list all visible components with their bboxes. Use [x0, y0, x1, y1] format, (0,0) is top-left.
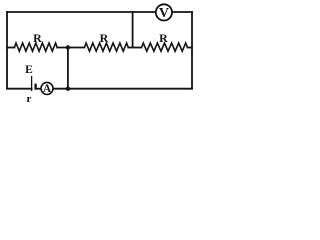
resistor R3: [142, 43, 188, 51]
wire right edge: [191, 12, 193, 89]
wire middle right stub: [188, 47, 193, 49]
node junction dot bottom: [66, 87, 70, 91]
svg-text:E: E: [25, 64, 33, 76]
node junction dot middle: [66, 45, 70, 49]
voltmeter V: [156, 4, 172, 20]
wire left edge: [6, 12, 8, 89]
wire between R2 and R3: [128, 47, 141, 49]
wire top right segment: [173, 11, 192, 13]
svg-text:R: R: [33, 31, 42, 45]
wire vertical middle-to-bottom: [67, 48, 69, 89]
battery short plate: [34, 84, 36, 90]
svg-text:V: V: [159, 6, 169, 21]
wire vertical top-to-middle: [132, 12, 134, 48]
svg-text:R: R: [159, 31, 168, 45]
wire battery to ammeter: [36, 88, 41, 90]
resistor R2: [84, 43, 128, 51]
wire between R1 and R2: [57, 47, 84, 49]
svg-text:A: A: [43, 83, 52, 95]
svg-text:R: R: [100, 31, 109, 45]
wire middle left stub: [7, 47, 14, 49]
battery long plate: [31, 76, 33, 91]
svg-text:r: r: [27, 93, 32, 105]
wire ammeter to bottom right: [54, 88, 192, 90]
wire top left segment: [7, 11, 155, 13]
ammeter A: [41, 82, 53, 94]
wire bottom left to battery: [7, 88, 32, 90]
resistor R1: [14, 43, 57, 51]
